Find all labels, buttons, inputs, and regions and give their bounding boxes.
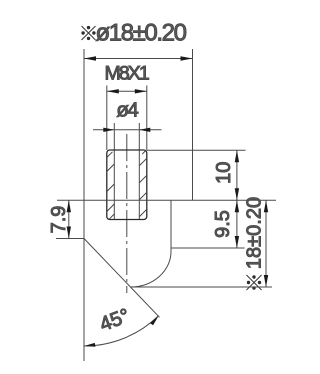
dimension line 10 (vertical) xyxy=(236,150,238,200)
arrow ※18 top xyxy=(264,200,268,212)
45° angle extension line (vertical) xyxy=(83,239,85,362)
reference mark ※ (rotated label) xyxy=(247,275,262,290)
feature line across part (y=200) xyxy=(57,199,276,201)
note title reference mark ※ xyxy=(81,26,95,40)
svg-text:18±0.20: 18±0.20 xyxy=(243,197,265,269)
extension line at hole top (y=150) xyxy=(147,149,246,151)
dimension line ø4 xyxy=(93,129,162,131)
dimension line ※18±0.20 (vertical) xyxy=(265,200,267,287)
dimension line ø18 xyxy=(84,58,193,60)
part left edge / extension line xyxy=(83,49,85,239)
dimension line 7.9 (vertical) xyxy=(68,200,70,238)
svg-text:ø18±0.20: ø18±0.20 xyxy=(96,20,187,47)
arrow 9.5 top xyxy=(235,200,239,212)
svg-text:ø4: ø4 xyxy=(116,99,138,122)
dimension line M8X1 xyxy=(107,90,147,92)
threaded insert outline (section rectangle) xyxy=(107,150,147,220)
arrow ø18 right xyxy=(181,56,193,60)
arrow 9.5 bottom xyxy=(235,236,239,248)
angular dimension arc 45° xyxy=(84,316,159,346)
part right edge / extension line xyxy=(192,49,194,200)
arrow ※18 bottom xyxy=(264,275,268,287)
arrow 7.9 top xyxy=(67,200,71,212)
thread major diameter line right xyxy=(146,86,148,151)
extension line at tip (y=287) xyxy=(131,286,273,288)
hatching right band xyxy=(140,150,147,216)
arrow M8X1 left xyxy=(107,89,119,93)
arrow 10 bottom xyxy=(235,188,239,200)
arrow ø4 left (outside, pointing right) xyxy=(103,128,114,132)
svg-text:10: 10 xyxy=(213,162,235,184)
arrow M8X1 right xyxy=(135,89,147,93)
arrow ø4 right (outside, pointing left) xyxy=(139,128,150,132)
arrow ø18 left xyxy=(84,56,96,60)
pilot hole line right (ø4) xyxy=(138,123,140,219)
hatching left band xyxy=(107,152,114,219)
chamfer line 45° xyxy=(84,239,160,318)
dimension line 9.5 (vertical) xyxy=(236,200,238,248)
pilot hole line left (ø4) xyxy=(113,123,115,219)
step surface / extension line (y=248) xyxy=(171,247,245,249)
rounded corner arc xyxy=(131,252,172,288)
part inner right edge (step) xyxy=(170,200,172,251)
arrow 45° arc right xyxy=(150,316,159,326)
arrow 10 top xyxy=(235,150,239,162)
centerline (vertical axis) xyxy=(126,134,128,293)
extension line 7.9 bottom (y=239) xyxy=(56,238,84,240)
arrow 45° arc left xyxy=(84,343,96,347)
svg-text:M8X1: M8X1 xyxy=(105,63,149,85)
thread major diameter line left xyxy=(106,86,108,151)
arrow 7.9 bottom xyxy=(67,227,71,239)
svg-text:9.5: 9.5 xyxy=(212,210,234,238)
svg-text:7.9: 7.9 xyxy=(48,206,70,234)
